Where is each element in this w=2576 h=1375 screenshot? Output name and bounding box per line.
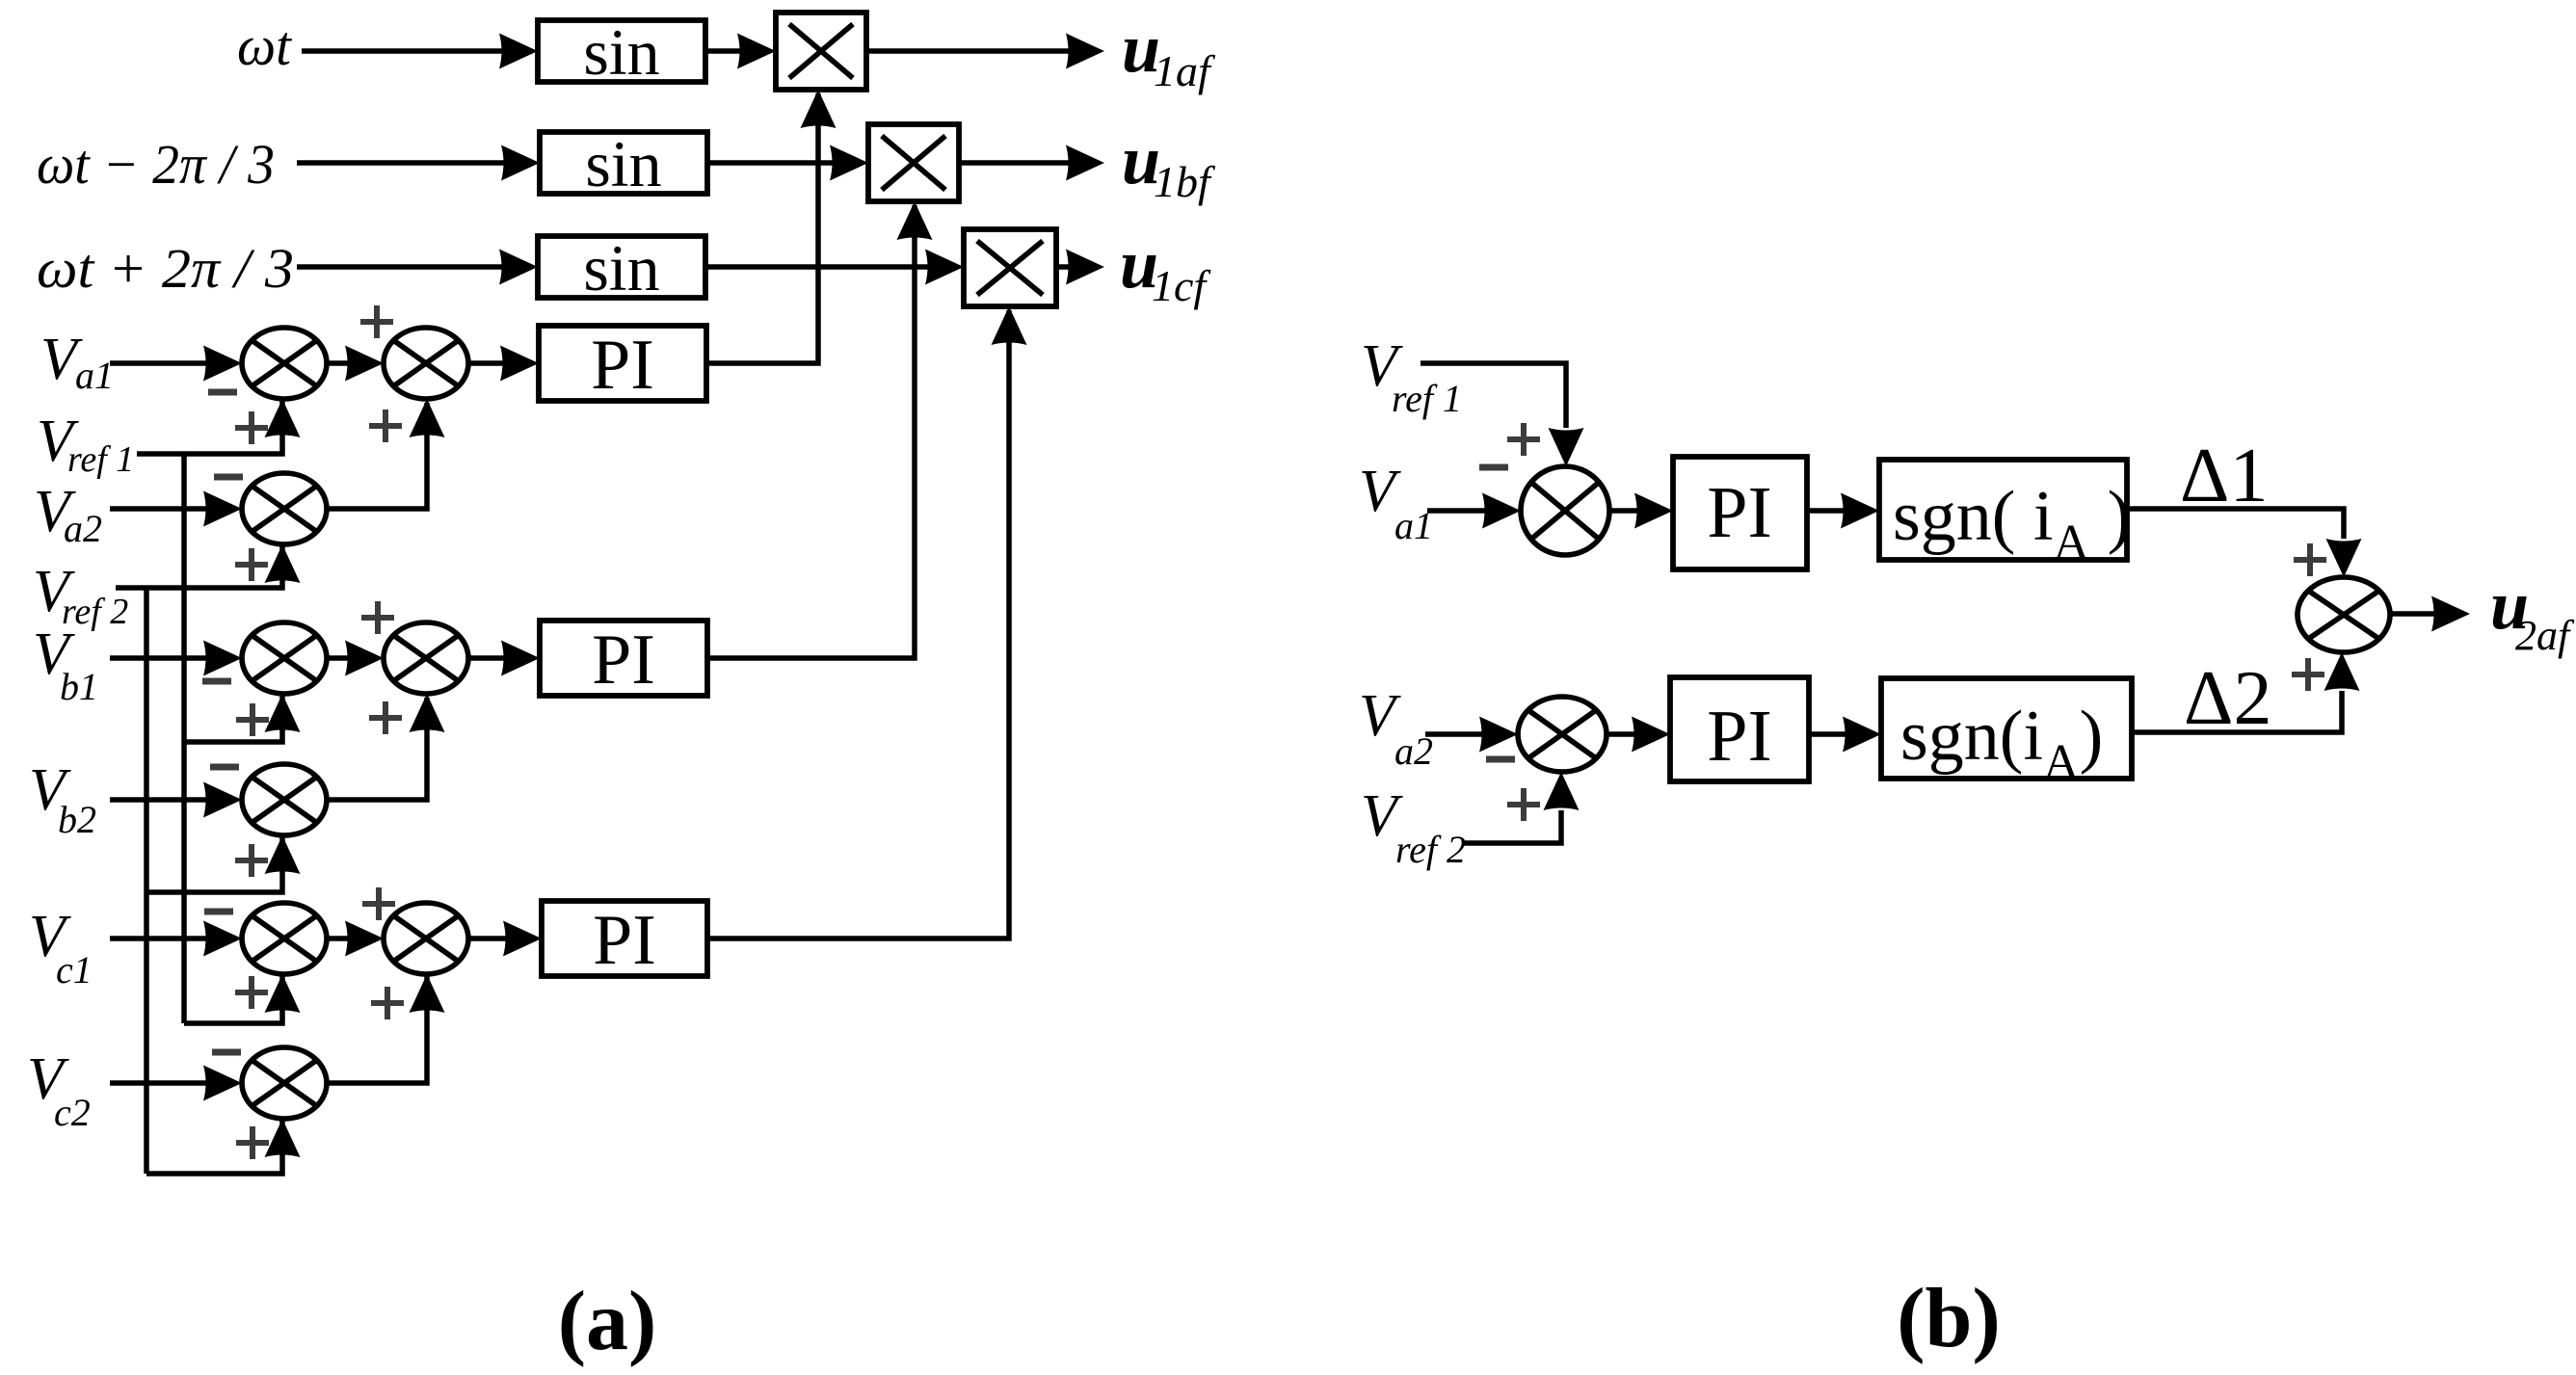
wire Vref1 branch vertical (181, 454, 187, 1023)
sign plus at B3 bottom (2292, 658, 2324, 691)
summing junction S3b (384, 622, 468, 694)
wire S2a to S1b bottom (327, 399, 445, 509)
input label ωt−2π/3 (37, 133, 275, 196)
svg-text:(a): (a) (558, 1275, 657, 1368)
caption (b) (1897, 1272, 2001, 1365)
sign plus at S3b top (361, 601, 394, 634)
wire S5b to PI3 (468, 921, 542, 957)
sign plus at B3 top (2294, 543, 2326, 576)
wire S1b to PI1 (468, 346, 539, 382)
multiplier M1 (776, 13, 866, 90)
summing junction S6a (242, 1047, 327, 1119)
summing junction S2a (242, 473, 327, 544)
svg-text:(b): (b) (1897, 1272, 2001, 1365)
input label Va1 (40, 327, 114, 397)
input label Vref1 (37, 409, 134, 480)
wire sgn (b1) to B3 top (2127, 509, 2362, 577)
svg-text:ωt + 2π / 3: ωt + 2π / 3 (37, 237, 294, 300)
multiplier M2 (868, 124, 959, 201)
svg-text:a2: a2 (64, 507, 102, 550)
sign minus at S5a input (204, 909, 233, 915)
block sgn(iA) (b1) (1879, 460, 2131, 570)
sign minus at S4a input (210, 764, 239, 771)
output label u1cf (1120, 225, 1211, 310)
svg-text:Δ2: Δ2 (2184, 656, 2271, 741)
wire Vb1 to S3a (110, 641, 242, 676)
wire Va2 to S2a (110, 491, 242, 527)
svg-text:1cf: 1cf (1152, 261, 1211, 310)
sign plus at S2a bottom (235, 548, 268, 581)
wire sin3 to M3 (705, 250, 964, 285)
wire Vb2 to S4a (110, 782, 242, 818)
block PI (b1) (1673, 457, 1807, 569)
input label Vc1 (29, 904, 93, 992)
sign plus at B1 top (1507, 423, 1540, 456)
wire M3 to u1cf (1056, 250, 1104, 285)
svg-text:sin: sin (583, 15, 659, 89)
wire Vc2 to S6a (110, 1066, 242, 1101)
wire sin1 to M1 (705, 34, 776, 69)
block sin1 (538, 15, 705, 89)
sign minus at B2 input (1486, 756, 1515, 763)
wire S5a to S5b (327, 921, 384, 957)
sign minus at S2a input (214, 474, 243, 481)
wire PI to sgn (b2) (1809, 717, 1881, 753)
wire PI3 to M3 bottom (707, 306, 1027, 939)
input label Vb1 (33, 621, 98, 708)
sign plus at S5b top (362, 887, 395, 920)
wire Vref1 to S3a bottom (184, 694, 301, 742)
sign minus at S1a input (208, 389, 237, 396)
block sin3 (538, 231, 705, 304)
wire Vref1 to S1a bottom (137, 399, 301, 454)
sign minus at S3a input (202, 678, 231, 685)
sign plus at S5a bottom (235, 976, 268, 1009)
wire S6a to S5b bottom (327, 974, 445, 1083)
svg-text:1af: 1af (1154, 46, 1216, 95)
wire PI to sgn (b1) (1807, 493, 1879, 529)
svg-text:sin: sin (585, 127, 661, 200)
input label Va2 (34, 479, 102, 550)
svg-text:b1: b1 (60, 665, 98, 708)
output label u1af (1122, 10, 1216, 95)
wire Vref1 to B1 top (1421, 363, 1584, 466)
block PI3 (542, 901, 707, 980)
wire sgn (b2) to B3 bottom (2132, 652, 2360, 732)
wire S3a to S3b (327, 641, 384, 676)
wire S1a to S1b (327, 346, 384, 382)
node label Δ1 (2180, 434, 2268, 518)
svg-text:PI: PI (593, 901, 656, 980)
svg-text:Δ1: Δ1 (2180, 434, 2268, 518)
wire B2 to PI (b2) (1607, 717, 1670, 753)
svg-text:ref 1: ref 1 (1392, 377, 1462, 420)
sign plus at S1b top (360, 305, 393, 338)
input label ωt+2π/3 (37, 237, 294, 300)
sign plus at S1a bottom (235, 411, 268, 444)
wire B3 to u2af (2390, 596, 2470, 632)
input label Vref2 (33, 559, 128, 632)
sign plus at S5b bottom (371, 987, 404, 1019)
wire Va2 to B2 (1425, 717, 1518, 753)
input label Vref1 (b) (1361, 333, 1462, 420)
wire ωt to sin1 (302, 34, 538, 69)
svg-text:ref 2: ref 2 (62, 592, 128, 632)
svg-text:PI: PI (592, 621, 655, 700)
sign plus at S4a bottom (235, 844, 268, 877)
wire PI2 to M2 bottom (707, 201, 933, 658)
svg-text:c1: c1 (56, 948, 93, 992)
wire M2 to u1bf (959, 145, 1104, 181)
svg-text:PI: PI (1707, 472, 1772, 553)
summing junction S5a (242, 903, 327, 974)
svg-text:2af: 2af (2515, 612, 2575, 659)
wire Vref2 branch vertical (144, 588, 149, 1174)
block sgn(iA) (b2) (1881, 678, 2132, 790)
caption (a) (558, 1275, 657, 1368)
wire ωt−2π/3 to sin2 (297, 145, 540, 181)
wire S4a to S3b bottom (327, 694, 445, 800)
wire B1 to PI (b1) (1609, 493, 1673, 529)
summing junction S5b (384, 903, 468, 974)
input label Vref2 (b) (1361, 783, 1466, 871)
wire Vc1 to S5a (110, 921, 242, 957)
wire ωt+2π/3 to sin3 (297, 250, 538, 285)
output label u2af (2490, 567, 2575, 659)
input label Va2 (b) (1359, 683, 1433, 773)
input label Vb2 (29, 757, 96, 841)
wire PI1 to M1 bottom (706, 90, 837, 363)
block PI (b2) (1670, 677, 1809, 781)
wire Vref2 to S6a bottom (146, 1119, 301, 1174)
wire Vref2 to S4a bottom (146, 835, 301, 892)
wire sin2 to M2 (707, 145, 868, 181)
summing junction B2 (1518, 697, 1607, 772)
wire Vref2 to S2a bottom (116, 544, 301, 588)
sign plus at B2 bottom (1507, 788, 1540, 821)
wire Va1 to S1a (110, 346, 242, 382)
svg-text:c2: c2 (54, 1091, 91, 1134)
wire M1 to u1af (866, 34, 1104, 69)
input label Vc2 (27, 1046, 91, 1134)
wire Vref2 to B2 bottom (1464, 772, 1580, 843)
sign plus at S3b bottom (369, 701, 402, 734)
block PI1 (539, 326, 706, 405)
svg-text:ωt − 2π / 3: ωt − 2π / 3 (37, 133, 275, 196)
svg-text:sin: sin (583, 231, 659, 304)
sign plus at S1b bottom (369, 410, 402, 442)
summing junction S4a (242, 764, 327, 835)
sign plus at S6a bottom (236, 1126, 269, 1159)
summing junction B1 (1521, 466, 1609, 555)
wire S3b to PI2 (468, 641, 540, 676)
svg-text:ref 2: ref 2 (1395, 828, 1466, 871)
svg-text:ref 1: ref 1 (67, 439, 134, 480)
multiplier M3 (964, 229, 1056, 306)
svg-text:b2: b2 (58, 798, 96, 841)
wire Va1 to B1 (1427, 493, 1521, 529)
svg-text:PI: PI (1707, 696, 1772, 777)
input label Va1 (b) (1359, 459, 1433, 547)
summing junction S1a (242, 328, 327, 399)
svg-text:a1: a1 (75, 354, 114, 397)
node label Δ2 (2184, 656, 2271, 741)
svg-text:PI: PI (591, 326, 654, 405)
summing junction S1b (384, 328, 468, 399)
summing junction S3a (242, 622, 327, 694)
summing junction B3 (2297, 577, 2390, 652)
sign plus at S3a bottom (236, 703, 269, 736)
svg-text:ωt: ωt (237, 14, 293, 77)
block PI2 (540, 621, 707, 700)
sign minus at B1 input (1479, 464, 1508, 471)
block sin2 (540, 127, 707, 200)
svg-text:1bf: 1bf (1154, 157, 1216, 206)
wire Vref1 to S5a bottom (184, 974, 301, 1023)
sign minus at S6a input (212, 1049, 241, 1056)
output label u1bf (1122, 121, 1216, 206)
input label ωt (237, 14, 293, 77)
